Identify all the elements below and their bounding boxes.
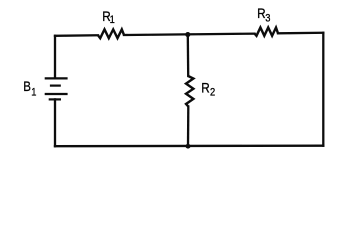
svg-text:1: 1 [31, 87, 36, 99]
wire bottom [55, 145, 323, 148]
svg-text:3: 3 [265, 13, 270, 25]
svg-text:1: 1 [110, 14, 115, 26]
wire left lower (from battery) [54, 99, 56, 146]
wire middle branch lower [187, 107, 190, 147]
wire top-right segment [278, 32, 323, 35]
wire right side [322, 33, 324, 146]
battery B1 plate short bottom [49, 98, 61, 100]
wire left upper (to battery) [54, 36, 56, 78]
node junction bottom [186, 144, 191, 149]
svg-text:2: 2 [210, 87, 215, 99]
svg-text:R: R [201, 79, 209, 95]
wire top-left segment [55, 34, 98, 37]
battery B1 plate short [50, 84, 61, 86]
node junction top [185, 32, 190, 37]
svg-text:R: R [257, 5, 265, 21]
battery B1 plate long top [45, 77, 68, 79]
svg-text:B: B [23, 78, 31, 94]
wire top-middle segment [124, 34, 255, 35]
resistor R2 [186, 76, 193, 107]
wire middle branch upper [187, 34, 190, 76]
battery B1 plate long lower [45, 93, 68, 95]
resistor R3 [255, 28, 279, 36]
resistor R1 [98, 29, 124, 38]
